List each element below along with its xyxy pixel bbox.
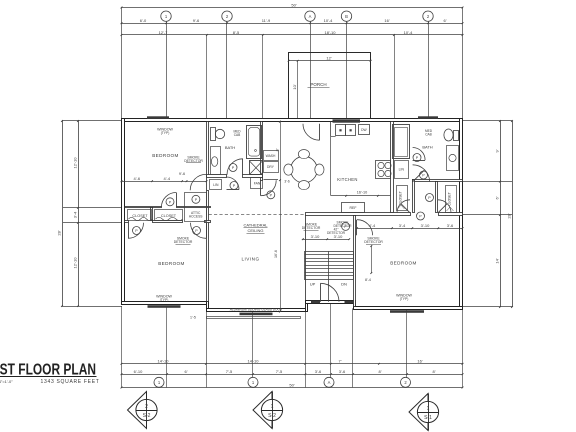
svg-text:BATH: BATH	[422, 145, 432, 150]
svg-text:7'-5: 7'-5	[226, 369, 233, 374]
svg-text:50': 50'	[291, 2, 296, 7]
svg-text:CAB: CAB	[425, 132, 432, 136]
svg-text:3'-6: 3'-6	[284, 180, 289, 184]
svg-text:6': 6'	[444, 18, 447, 23]
svg-text:CATHEDRAL: CATHEDRAL	[244, 223, 269, 228]
svg-text:1'-5: 1'-5	[190, 316, 196, 320]
svg-text:LIN: LIN	[213, 183, 219, 187]
svg-text:B: B	[345, 14, 348, 19]
svg-text:S-1: S-1	[424, 415, 432, 421]
svg-text:12'-7: 12'-7	[159, 30, 169, 35]
svg-text:9': 9'	[495, 149, 500, 152]
svg-text:12'-10: 12'-10	[73, 257, 78, 269]
svg-text:16': 16'	[417, 359, 422, 364]
svg-text:4'-4: 4'-4	[164, 176, 171, 181]
svg-text:9'-6: 9'-6	[193, 18, 200, 23]
svg-text:CAB: CAB	[234, 133, 241, 137]
svg-text:DETECTOR: DETECTOR	[174, 240, 193, 244]
svg-text:DN: DN	[341, 282, 347, 287]
svg-text:8': 8'	[379, 369, 382, 374]
svg-text:S-2: S-2	[268, 413, 276, 419]
svg-text:(TYP): (TYP)	[160, 298, 169, 302]
svg-text:6'-0: 6'-0	[140, 18, 147, 23]
svg-text:10': 10'	[292, 84, 297, 89]
svg-text:8'-4: 8'-4	[365, 278, 371, 282]
svg-text:REF: REF	[350, 206, 357, 210]
svg-text:PORCH: PORCH	[310, 82, 326, 87]
svg-text:1: 1	[427, 406, 430, 412]
svg-text:14': 14'	[495, 258, 500, 263]
svg-text:16': 16'	[384, 18, 389, 23]
svg-text:LIN: LIN	[399, 168, 405, 172]
svg-text:BEDROOM: BEDROOM	[390, 261, 417, 266]
svg-text:3'-10: 3'-10	[421, 223, 431, 228]
svg-text:CLOSET: CLOSET	[132, 214, 148, 218]
svg-text:6'-10: 6'-10	[134, 369, 144, 374]
svg-text:28': 28'	[507, 213, 512, 218]
svg-text:1ST FLOOR PLAN: 1ST FLOOR PLAN	[0, 362, 96, 379]
svg-text:(TYP): (TYP)	[161, 131, 170, 135]
svg-text:16'-10: 16'-10	[357, 191, 367, 195]
svg-text:8': 8'	[276, 148, 280, 151]
svg-text:8': 8'	[433, 369, 436, 374]
svg-text:3'-6: 3'-6	[339, 369, 346, 374]
svg-text:14'-10: 14'-10	[158, 359, 170, 364]
svg-text:CLOSET: CLOSET	[448, 192, 452, 206]
svg-text:DETECTOR: DETECTOR	[364, 240, 383, 244]
svg-text:6': 6'	[185, 369, 188, 374]
svg-text:1343 SQUARE FEET: 1343 SQUARE FEET	[41, 379, 100, 385]
svg-text:7'-5: 7'-5	[276, 369, 283, 374]
svg-text:CEILING: CEILING	[247, 228, 263, 233]
svg-text:BEDROOM: BEDROOM	[152, 153, 179, 158]
svg-text:3'-6: 3'-6	[447, 223, 454, 228]
svg-text:3'-10: 3'-10	[334, 234, 344, 239]
svg-text:14'-10: 14'-10	[248, 359, 260, 364]
svg-text:16'-6: 16'-6	[274, 250, 278, 258]
svg-text:S-2: S-2	[143, 413, 151, 419]
svg-text:12': 12'	[326, 56, 331, 61]
svg-text:9'-6: 9'-6	[179, 172, 185, 176]
svg-text:CLOSET: CLOSET	[161, 214, 177, 218]
svg-text:(TYP): (TYP)	[400, 297, 409, 301]
svg-text:ALUMINUM SLIDING GLASS DOOR: ALUMINUM SLIDING GLASS DOOR	[230, 308, 283, 312]
svg-text:8'-5: 8'-5	[233, 30, 240, 35]
svg-text:4'-6: 4'-6	[134, 176, 141, 181]
svg-text:10'-4: 10'-4	[404, 30, 414, 35]
svg-text:6': 6'	[495, 196, 500, 199]
svg-text:11'-9: 11'-9	[262, 18, 271, 23]
svg-text:28': 28'	[57, 230, 62, 235]
svg-text:4'-4: 4'-4	[369, 223, 376, 228]
svg-text:3'-6: 3'-6	[315, 369, 322, 374]
svg-text:LIVING: LIVING	[241, 257, 259, 262]
svg-text:2: 2	[145, 404, 148, 410]
svg-text:10'-4: 10'-4	[324, 18, 334, 23]
svg-text:WASH: WASH	[266, 154, 276, 158]
svg-text:FAN: FAN	[254, 182, 261, 186]
svg-text:DW: DW	[361, 128, 367, 132]
svg-text:3'-10: 3'-10	[311, 234, 321, 239]
svg-text:UP: UP	[310, 282, 316, 287]
svg-text:DETECTOR: DETECTOR	[302, 226, 321, 230]
svg-text:1: 1	[271, 404, 274, 410]
svg-text:KITCHEN: KITCHEN	[337, 177, 357, 182]
svg-text:12'-10: 12'-10	[73, 157, 78, 169]
svg-text:3'-4: 3'-4	[399, 223, 406, 228]
svg-text:BATH: BATH	[225, 145, 235, 150]
svg-text:DRY: DRY	[267, 165, 275, 169]
svg-text:ACCESS: ACCESS	[189, 214, 203, 218]
svg-text:50': 50'	[289, 382, 294, 387]
svg-text:3'-4: 3'-4	[73, 211, 78, 218]
svg-text:18'-10: 18'-10	[325, 30, 337, 35]
svg-text:A: A	[309, 14, 312, 19]
svg-text:BEDROOM: BEDROOM	[158, 261, 185, 266]
svg-text:1/4"=1'-0": 1/4"=1'-0"	[0, 379, 13, 384]
svg-text:7': 7'	[339, 359, 342, 364]
svg-text:DETECTOR: DETECTOR	[333, 224, 352, 228]
svg-text:A: A	[328, 380, 331, 385]
